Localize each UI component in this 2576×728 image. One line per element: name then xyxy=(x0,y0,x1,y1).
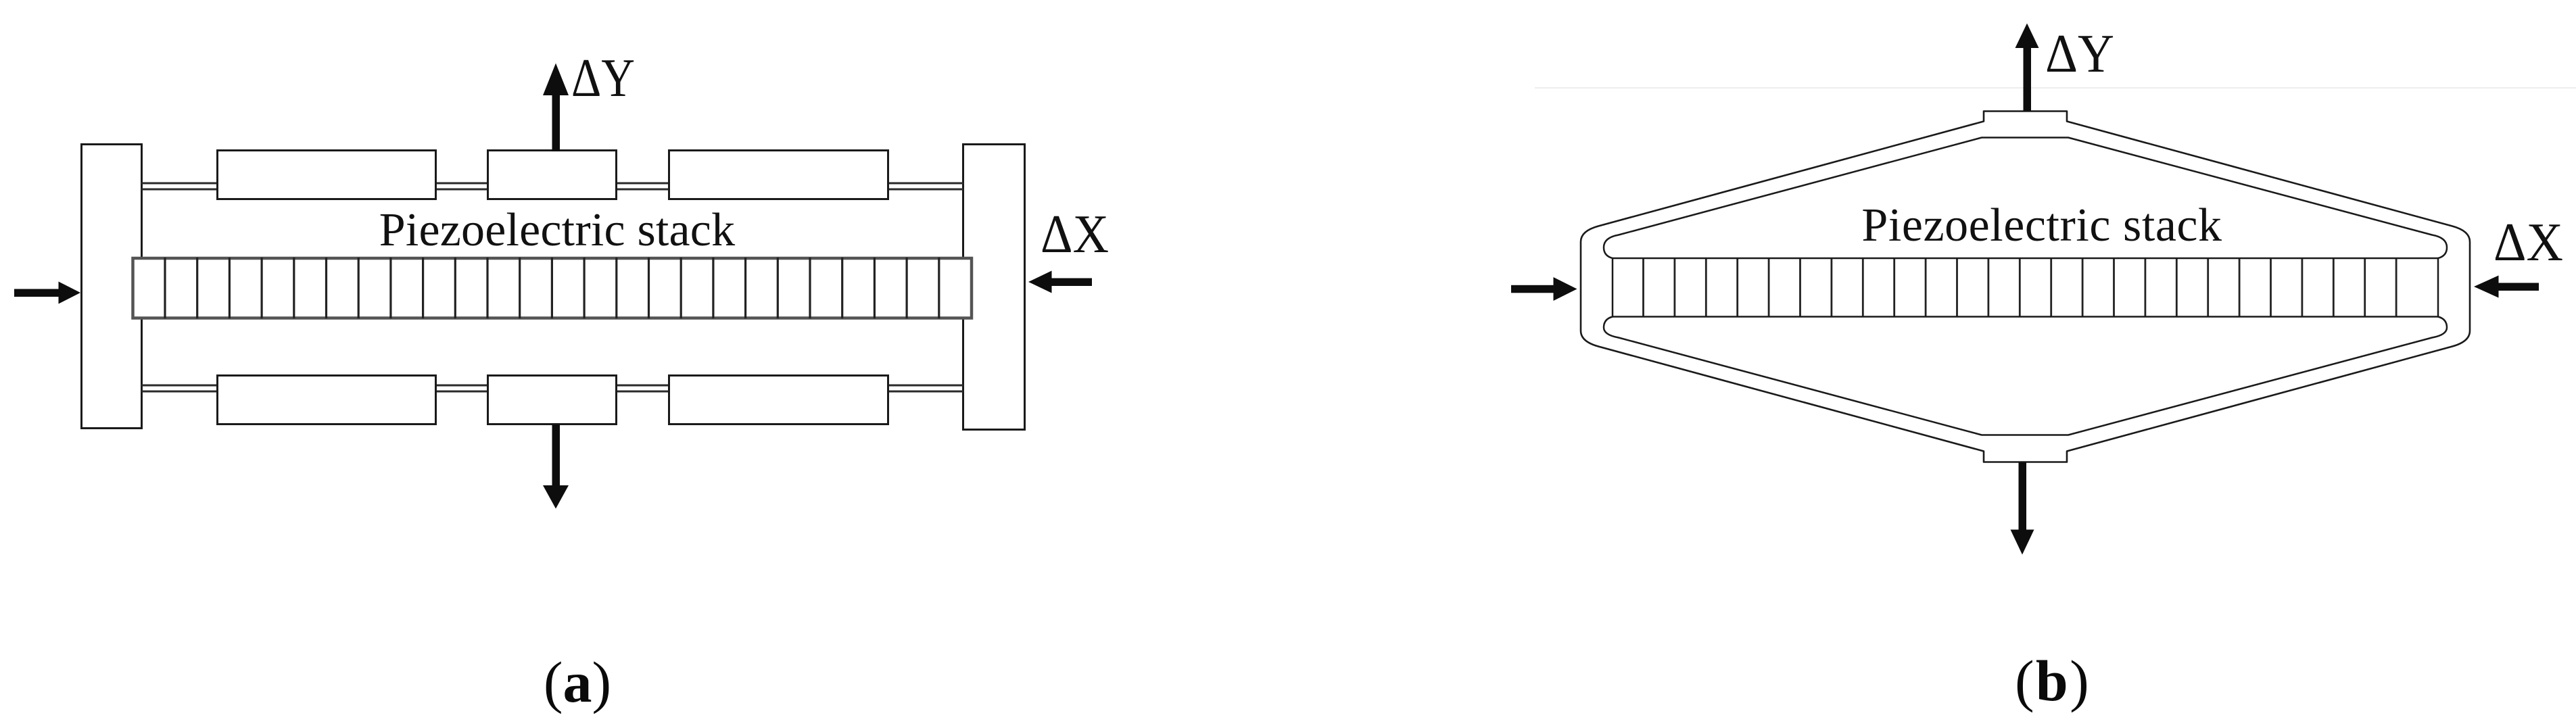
svg-text:(a): (a) xyxy=(544,650,611,714)
svg-text:Piezoelectric stack: Piezoelectric stack xyxy=(379,204,736,256)
svg-text:ΔY: ΔY xyxy=(2045,23,2114,84)
svg-text:ΔY: ΔY xyxy=(571,47,635,108)
svg-text:ΔX: ΔX xyxy=(2494,212,2563,272)
svg-text:ΔX: ΔX xyxy=(1041,203,1109,264)
svg-text:(b): (b) xyxy=(2015,648,2091,713)
svg-text:Piezoelectric stack: Piezoelectric stack xyxy=(1861,199,2222,251)
